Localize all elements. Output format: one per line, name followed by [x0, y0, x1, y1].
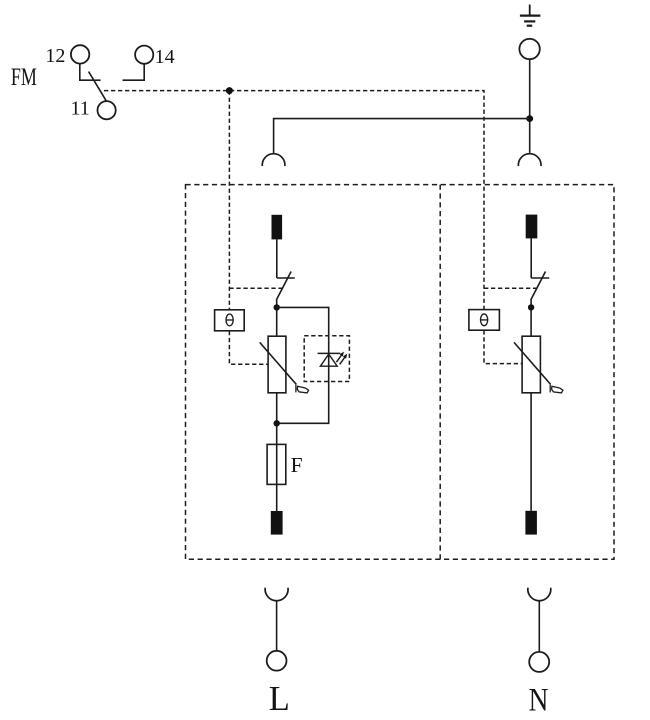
varistor N disconnect flag [550, 385, 563, 393]
node PE junction [526, 115, 533, 122]
wire PE vertical [529, 59, 531, 153]
LED cathode bar [318, 352, 341, 354]
varistor N body [522, 336, 540, 393]
connector plug left [262, 154, 285, 166]
wire L terminal [276, 601, 278, 651]
wire N top [530, 238, 532, 278]
LED indicator dashed box [304, 336, 349, 382]
svg-text:FM: FM [11, 64, 37, 91]
LED triangle [320, 354, 337, 366]
svg-text:L: L [269, 680, 290, 718]
terminal N circle [529, 652, 549, 672]
thermal disconnector L blade [276, 272, 291, 300]
svg-text:F: F [291, 453, 303, 477]
terminal bar bottom N [525, 511, 537, 535]
terminal 12 lead [80, 64, 101, 80]
remote contact terminal 11 [98, 101, 116, 119]
terminal PE circle [519, 39, 539, 59]
wire L lower [276, 393, 278, 511]
contact blade FM [89, 72, 107, 101]
varistor L diagonal [260, 342, 297, 384]
dashed theta L to varistor [229, 331, 268, 364]
remote contact terminal 14 [135, 46, 153, 64]
LED emission arrow 2 [340, 354, 348, 365]
terminal bar top L [272, 215, 283, 240]
thermal sensor theta N [469, 310, 500, 331]
terminal bar bottom L [271, 511, 283, 535]
connector plug right [518, 154, 541, 166]
svg-text:14: 14 [155, 46, 175, 68]
wire N lower [530, 393, 532, 511]
svg-text:11: 11 [71, 98, 90, 120]
node N [528, 304, 534, 310]
dashed link to switch L [229, 287, 283, 289]
connector socket N [528, 588, 551, 601]
remote contact terminal 12 [71, 45, 89, 63]
node L led branch [274, 304, 280, 310]
dashed FM to left theta [228, 91, 230, 310]
thermal disconnector L fixed contact [277, 277, 295, 279]
dashed FM signal line [104, 91, 484, 310]
svg-text:N: N [529, 683, 549, 719]
dashed theta N to varistor [484, 330, 522, 363]
svg-text:12: 12 [45, 45, 65, 67]
dashed link to switch N [484, 287, 538, 289]
wire N terminal [538, 601, 540, 652]
LED branch wire [277, 307, 329, 423]
enclosure dashed box [186, 185, 615, 560]
fuse F [267, 444, 286, 484]
thermal disconnector N blade [531, 272, 546, 300]
wire PE to left module top [274, 119, 530, 154]
terminal L circle [267, 651, 287, 671]
wire L mid [276, 300, 278, 337]
node fuse branch [274, 420, 280, 426]
ground [520, 5, 541, 26]
terminal bar top N [526, 215, 538, 239]
wire L top [276, 239, 278, 278]
wire N mid [530, 300, 532, 337]
varistor L disconnect flag [296, 385, 309, 393]
node FM junction [226, 87, 233, 94]
varistor L body [268, 336, 286, 393]
enclosure divider [439, 185, 441, 560]
connector socket L [265, 588, 288, 601]
thermal sensor theta L [215, 310, 245, 331]
LED emission arrow 1 [336, 352, 344, 363]
thermal disconnector N fixed contact [531, 277, 549, 279]
varistor N diagonal [514, 342, 551, 384]
terminal 14 lead [123, 64, 145, 80]
